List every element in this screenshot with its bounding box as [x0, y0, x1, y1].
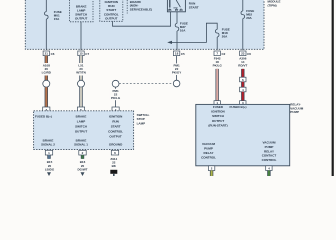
pin 5 switch-stop lamp: [77, 107, 84, 112]
fuse M02: [241, 11, 245, 19]
svg-text:WT/TN: WT/TN: [76, 71, 86, 75]
svg-text:C6: C6: [51, 52, 55, 56]
wire K924 green to pump: [267, 171, 270, 177]
label A306 14 RD/VT: [236, 57, 249, 68]
wire fuse M18 to pin 7: [216, 37, 218, 50]
label PM1 22 PK/GY: [170, 63, 183, 75]
pin 2 bottom switch-stop lamp: [79, 150, 86, 155]
inline connector 4 on A306: [240, 87, 246, 92]
fuse M18: [215, 29, 219, 37]
note text BOARD (NON-SERVICEABLE): [130, 0, 152, 12]
wire relay to fuse M37: [176, 12, 178, 24]
svg-text:SIGNAL 1: SIGNAL 1: [74, 142, 88, 146]
relay K1 RUN START body: [167, 0, 185, 12]
connector circle on A108: [43, 80, 50, 87]
pin 15 connector C7: [78, 51, 90, 56]
pin 23 connector C6: [240, 51, 252, 56]
svg-text:RUN: RUN: [112, 119, 119, 123]
svg-text:20A: 20A: [222, 34, 228, 38]
wire L51 to stop lamp switch: [79, 87, 82, 108]
wire B16 stub green: [81, 155, 84, 159]
svg-text:SERVICEABLE): SERVICEABLE): [130, 8, 152, 12]
svg-text:FUSED: FUSED: [213, 105, 224, 109]
value label FUSE M02 20A: [246, 9, 254, 20]
svg-text:LG/RD: LG/RD: [42, 71, 52, 75]
pin 2 bottom relay-vacuum pump: [208, 166, 214, 171]
arrowhead pointing left: [167, 41, 172, 44]
svg-text:PUMP: PUMP: [204, 146, 213, 150]
pin 6 bottom switch-stop lamp: [111, 150, 118, 155]
svg-text:FUSED B(+): FUSED B(+): [230, 105, 247, 109]
label SWITCH STOP LAMP: [137, 113, 150, 125]
value label FUSE M01 15A: [54, 10, 62, 21]
node FUSED IGNITION SWITCH OUTPUT (RUN-START): [208, 105, 227, 127]
svg-text:OUTPUT: OUTPUT: [75, 17, 88, 21]
label RELAY-VACUUM PUMP: [290, 103, 303, 115]
node IGNITION RUN START CONTROL OUTPUT: [108, 114, 123, 138]
node BRAKE LAMP SWITCH OUTPUT: [75, 114, 88, 133]
svg-text:C5: C5: [181, 52, 185, 56]
pin 1 relay-vacuum pump: [214, 101, 220, 106]
svg-text:C6: C6: [247, 52, 251, 56]
svg-text:SWITCH: SWITCH: [75, 124, 87, 128]
svg-text:CONTROL: CONTROL: [201, 156, 216, 160]
svg-text:20A: 20A: [246, 16, 252, 20]
svg-text:LB/DG: LB/DG: [45, 168, 55, 172]
svg-text:PUMP: PUMP: [265, 145, 274, 149]
dashed link between connectors: [119, 83, 173, 85]
svg-text:CONTROL: CONTROL: [262, 158, 277, 162]
page border right: [332, 0, 334, 176]
node VACUUM PUMP RELAY CONTROL: [201, 142, 216, 160]
svg-text:10A: 10A: [180, 29, 186, 33]
svg-text:15: 15: [79, 52, 83, 56]
svg-text:23: 23: [241, 52, 245, 56]
svg-text:C2: C2: [222, 52, 226, 56]
svg-text:SWITCH: SWITCH: [212, 114, 224, 118]
svg-text:SIGNAL 2: SIGNAL 2: [41, 142, 55, 146]
label B15 20 LB/DG: [45, 160, 55, 171]
switch S1 STOP LAMP body: [34, 111, 134, 150]
wire L51 upper stub: [79, 56, 82, 63]
wire A108 to stop lamp switch: [45, 87, 48, 108]
relay K1 switch blade: [176, 0, 180, 7]
wire A108 upper stub: [45, 56, 48, 63]
label B16 20 DG/WT: [78, 160, 88, 171]
label A108 20 LG/RD: [40, 63, 53, 75]
wire Z914 stub below: [113, 174, 115, 176]
pin 21 connector C6: [43, 51, 55, 56]
pin 18 connector C5: [173, 51, 185, 56]
sub-box BRAKE LAMP SWITCH OUTPUT: [70, 0, 94, 22]
relay K1 contact bar: [173, 7, 177, 9]
wire A306 red segment 3: [241, 92, 244, 101]
fuse M37: [175, 23, 179, 31]
note BOARD (NON-SERVICEABLE) dashed edge: [126, 0, 128, 14]
svg-text:FUSED B(+): FUSED B(+): [35, 114, 52, 118]
relay K1 coil lead: [169, 0, 171, 8]
svg-text:PK/LG: PK/LG: [111, 96, 121, 100]
wire fuse M02 to pin 23: [242, 19, 244, 50]
svg-text:LAMP: LAMP: [77, 119, 86, 123]
label MODULE (TIPM): [268, 0, 281, 7]
svg-text:IGNITION: IGNITION: [109, 114, 122, 118]
svg-text:LAMP: LAMP: [137, 121, 146, 125]
fuse M01: [45, 12, 49, 20]
svg-text:PK/LG: PK/LG: [213, 64, 223, 68]
wire brake lamp output to pin: [80, 22, 82, 50]
svg-text:OUTPUT: OUTPUT: [105, 16, 118, 20]
svg-text:21: 21: [45, 52, 49, 56]
wire K923 green to pump: [210, 171, 213, 177]
connector circle left PM1: [112, 80, 119, 87]
svg-text:87: 87: [175, 8, 179, 12]
pin 3 relay-vacuum pump: [240, 101, 246, 106]
svg-text:BRAKE: BRAKE: [76, 114, 87, 118]
svg-text:START: START: [189, 6, 199, 10]
svg-text:RD/VT: RD/VT: [238, 64, 247, 68]
svg-text:(TIPM): (TIPM): [268, 3, 277, 7]
wire Z914 black bar: [110, 170, 117, 174]
value label FUSE M18 20A: [222, 27, 230, 38]
wire A108 lower stub: [45, 76, 48, 81]
label RUN START: [189, 2, 199, 10]
wire ignition run/start control to relay coil: [113, 12, 171, 26]
connector circle right PM1: [173, 80, 180, 87]
wire arrow down B15: [47, 172, 51, 176]
node BRAKE SIGNAL 1: [74, 138, 88, 146]
wire B15 stub blue: [47, 155, 50, 159]
wire tap to fuse M18 with arrow: [171, 23, 217, 42]
label L51 20 WT/TN: [75, 63, 88, 75]
wire fuse M01 to pin 21: [45, 19, 47, 50]
svg-text:CONTROL: CONTROL: [108, 129, 123, 133]
wire PM1 PK/GY from pin 18: [176, 56, 178, 81]
connector circle on L51: [78, 80, 85, 87]
svg-text:C7: C7: [85, 52, 89, 56]
pin 4 bottom relay-vacuum pump: [266, 166, 272, 171]
svg-text:OUTPUT: OUTPUT: [109, 134, 122, 138]
svg-text:PUMP: PUMP: [290, 110, 299, 114]
svg-text:OUTPUT: OUTPUT: [75, 129, 88, 133]
svg-text:IGNITION: IGNITION: [211, 110, 224, 114]
wire arrow down B16: [81, 172, 85, 176]
wire F942 pink to vacuum pump relay: [215, 69, 218, 101]
wire L51 lower stub: [79, 76, 82, 81]
svg-text:85: 85: [168, 8, 172, 12]
wire fuse M37 to pin 18: [176, 31, 178, 50]
svg-text:CONTACT: CONTACT: [262, 154, 277, 158]
wire PM1 PK/LG to stop lamp switch: [115, 87, 117, 108]
svg-text:RELAY: RELAY: [204, 151, 214, 155]
relay K2 VACUUM PUMP body: [196, 104, 290, 165]
sub-box IGNITION RUN START CONTROL OUTPUT: [100, 0, 123, 21]
module U1 TIPM body: [25, 0, 264, 49]
pin 3 switch-stop lamp: [43, 107, 50, 112]
svg-text:RELAY: RELAY: [264, 149, 274, 153]
wire A306 red segment 1: [241, 69, 244, 77]
label Z914 22 BK: [110, 157, 117, 168]
svg-text:DG/WT: DG/WT: [78, 168, 88, 172]
svg-text:15A: 15A: [54, 17, 60, 21]
pin 7 connector C2: [214, 51, 226, 56]
svg-text:VACUUM: VACUUM: [202, 142, 215, 146]
wire fuse M02 feed: [242, 0, 244, 11]
svg-text:START: START: [111, 124, 121, 128]
value label FUSE M37 10A: [180, 22, 188, 33]
svg-text:VACUUM: VACUUM: [263, 141, 276, 145]
node VACUUM PUMP RELAY CONTACT CONTROL: [262, 141, 277, 163]
pin 1 bottom switch-stop lamp: [45, 150, 52, 155]
inline connector 6 on A306: [240, 77, 246, 82]
svg-text:PK/GY: PK/GY: [172, 71, 181, 75]
node BRAKE SIGNAL 2: [41, 138, 55, 146]
wire A306 red segment 2: [241, 82, 244, 87]
relay K1 pin stubs: [169, 8, 171, 9]
svg-text:18: 18: [175, 52, 179, 56]
svg-text:(RUN-START): (RUN-START): [208, 123, 227, 127]
pin 4 switch-stop lamp: [112, 107, 119, 112]
svg-text:30: 30: [179, 8, 183, 12]
svg-text:OUTPUT: OUTPUT: [212, 119, 225, 123]
label F942 18 PK/LG: [211, 57, 224, 68]
svg-text:GROUND: GROUND: [109, 142, 123, 146]
label PM1 22 PK/LG: [109, 89, 122, 100]
wire fuse M01 feed: [45, 0, 47, 12]
